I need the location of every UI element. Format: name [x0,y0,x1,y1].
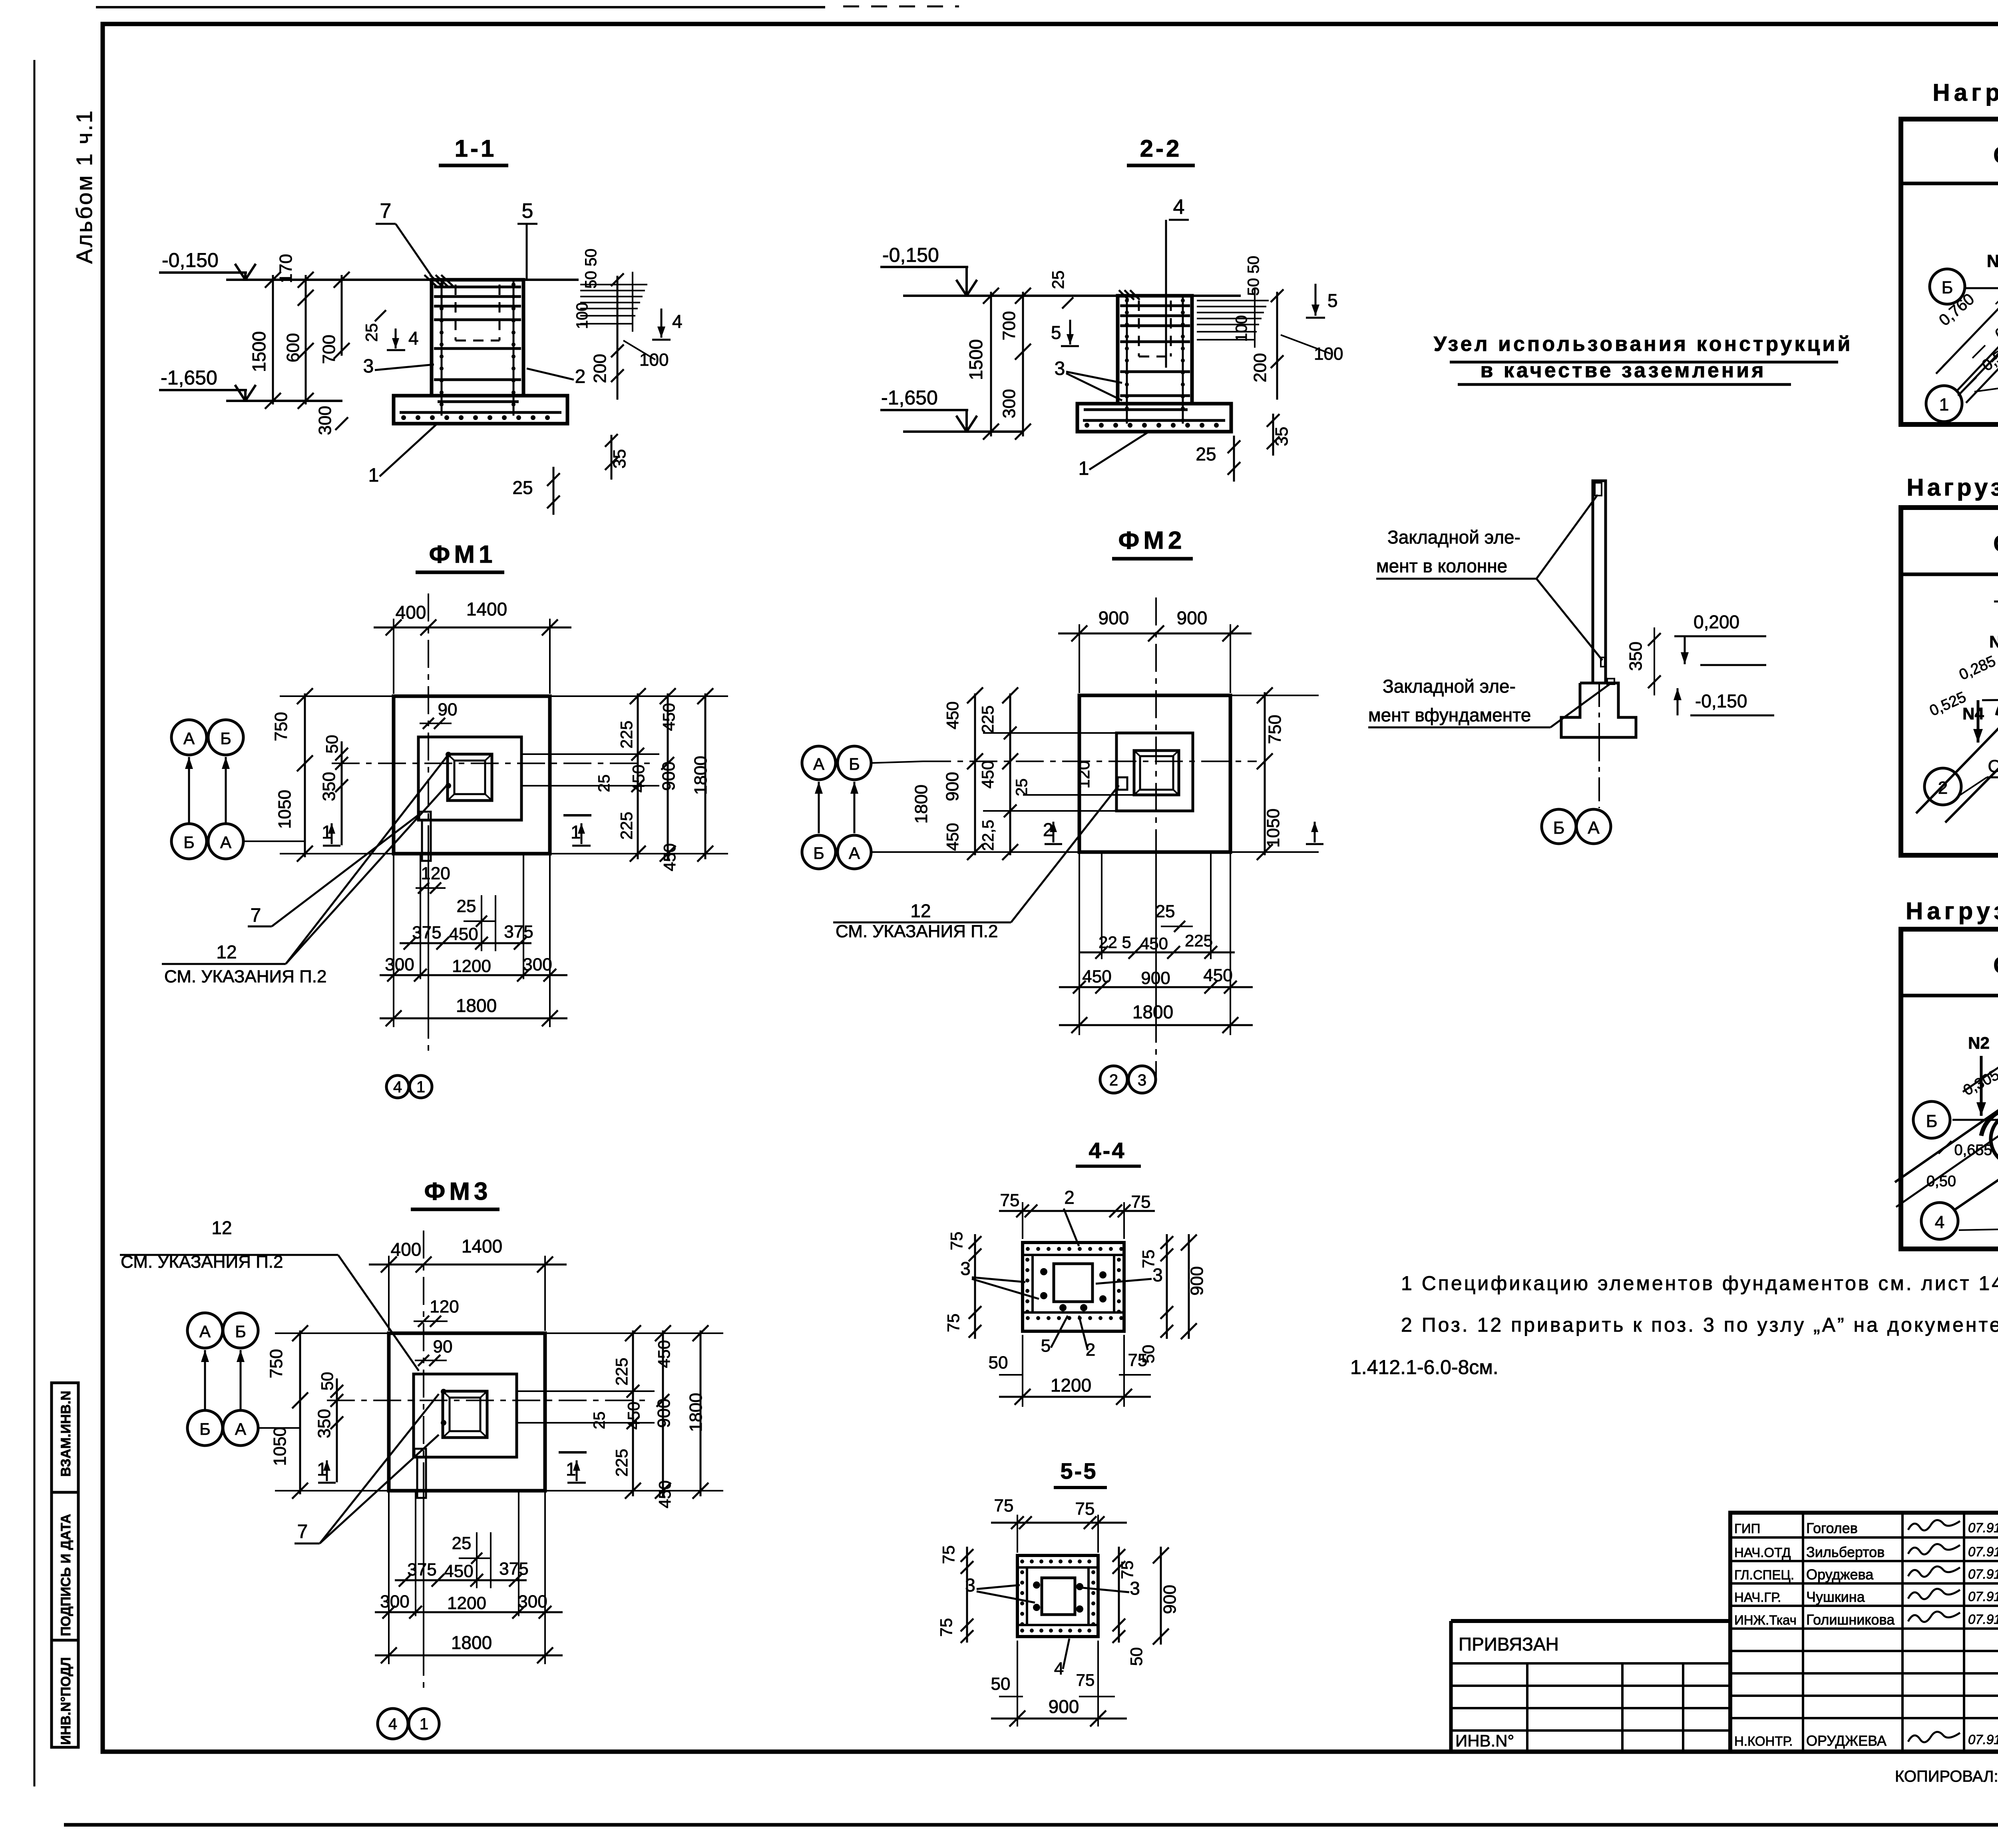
svg-text:25: 25 [457,896,476,916]
svg-text:1200: 1200 [452,956,491,976]
svg-text:Б: Б [183,833,195,852]
svg-text:900: 900 [943,772,962,801]
svg-text:50: 50 [989,1353,1008,1372]
svg-text:90: 90 [438,700,458,719]
svg-text:750: 750 [267,1349,286,1378]
svg-text:1: 1 [420,1715,428,1733]
svg-text:50 50: 50 50 [582,249,600,289]
svg-text:450: 450 [444,1561,473,1581]
svg-text:А: А [235,1420,246,1438]
svg-text:25: 25 [362,323,381,342]
svg-text:ПРИВЯЗАН: ПРИВЯЗАН [1459,1634,1559,1655]
svg-text:700: 700 [319,335,339,364]
svg-text:450: 450 [978,761,997,789]
svg-text:450: 450 [943,701,962,729]
svg-text:3: 3 [363,356,374,377]
svg-text:12: 12 [211,1217,232,1238]
svg-text:22 5: 22 5 [1099,933,1131,952]
svg-text:450: 450 [624,1402,643,1430]
svg-text:1050: 1050 [270,1427,290,1466]
svg-text:1: 1 [416,1078,425,1096]
svg-text:0,50: 0,50 [1926,1173,1956,1190]
svg-text:Нагрузки на фундамент ФМ1: Нагрузки на фундамент ФМ1 [1932,79,1998,106]
svg-text:Альбом 1 ч.1: Альбом 1 ч.1 [72,109,97,264]
svg-text:7: 7 [297,1521,308,1542]
svg-text:375: 375 [412,923,441,942]
svg-text:07.91: 07.91 [1968,1589,1998,1604]
svg-text:N4: N4 [1962,704,1984,723]
svg-text:3: 3 [1130,1578,1140,1599]
svg-text:3: 3 [965,1575,975,1595]
svg-text:Нагрузки на фундамент ФМ2: Нагрузки на фундамент ФМ2 [1906,474,1998,501]
svg-text:300: 300 [999,389,1019,418]
svg-text:25: 25 [1013,779,1031,797]
svg-text:225: 225 [612,1358,631,1386]
svg-text:НАЧ.ГР.: НАЧ.ГР. [1734,1590,1781,1605]
svg-text:4: 4 [388,1715,397,1733]
svg-text:25: 25 [512,477,533,498]
svg-text:2 Поз. 12 приварить к поз. 3: 2 Поз. 12 приварить к поз. 3 по узлу „А”… [1401,1314,1998,1336]
svg-text:12: 12 [216,942,237,962]
svg-text:7: 7 [380,199,392,223]
svg-text:ИНВ.N°ПОДЛ: ИНВ.N°ПОДЛ [58,1657,74,1745]
svg-text:-0,150: -0,150 [162,249,219,271]
svg-text:25: 25 [452,1533,472,1553]
svg-text:75: 75 [994,1496,1014,1515]
svg-text:ФМ3: ФМ3 [424,1178,492,1205]
svg-text:Чушкина: Чушкина [1806,1589,1865,1605]
svg-text:35: 35 [610,449,629,469]
svg-text:25: 25 [595,775,613,793]
svg-text:-1,650: -1,650 [881,386,938,409]
svg-text:Б: Б [1926,1111,1938,1131]
svg-text:225: 225 [978,705,997,733]
svg-text:450: 450 [449,924,478,944]
svg-text:5: 5 [1327,290,1338,311]
svg-text:07.91: 07.91 [1968,1544,1998,1559]
svg-text:900: 900 [659,761,679,791]
svg-text:07.91: 07.91 [1968,1520,1998,1535]
svg-text:1400: 1400 [462,1236,502,1257]
svg-text:-1,650: -1,650 [161,366,217,389]
svg-text:75: 75 [1128,1350,1148,1370]
svg-text:ВЗАМ.ИНВ.N: ВЗАМ.ИНВ.N [58,1391,74,1477]
svg-text:50 50: 50 50 [1245,256,1262,296]
svg-text:120: 120 [421,864,450,883]
svg-text:3: 3 [1138,1071,1146,1089]
svg-text:375: 375 [499,1559,528,1579]
svg-text:450: 450 [629,765,648,793]
svg-text:225: 225 [617,721,636,749]
svg-text:Закладной эле-: Закладной эле- [1387,527,1520,548]
svg-text:300: 300 [315,406,335,435]
svg-text:ИНЖ.Ткач: ИНЖ.Ткач [1734,1613,1797,1627]
svg-text:700: 700 [999,311,1019,340]
svg-text:450: 450 [1082,967,1111,986]
svg-text:5: 5 [1051,322,1061,343]
svg-text:2: 2 [575,366,586,387]
svg-text:200: 200 [1250,353,1270,382]
svg-text:КОПИРОВАЛ: НЕСМЕЯНОВА,: КОПИРОВАЛ: НЕСМЕЯНОВА, [1895,1768,1998,1785]
svg-text:1500: 1500 [965,339,986,380]
svg-text:ГИП: ГИП [1734,1521,1760,1536]
svg-text:Схема: Схема [1993,531,1998,557]
svg-text:900: 900 [1049,1696,1079,1717]
svg-text:07.91: 07.91 [1968,1612,1998,1627]
svg-text:225: 225 [617,812,636,840]
svg-text:1800: 1800 [451,1632,492,1653]
svg-text:900: 900 [1177,607,1208,628]
svg-text:1200: 1200 [447,1593,486,1613]
svg-text:450: 450 [660,843,679,871]
svg-text:450: 450 [943,823,962,851]
svg-text:-0,150: -0,150 [1695,691,1747,711]
svg-text:ПОДПИСЬ И ДАТА: ПОДПИСЬ И ДАТА [58,1514,74,1636]
svg-text:200: 200 [590,354,610,383]
svg-text:1.412.1-6.0-8см.: 1.412.1-6.0-8см. [1350,1356,1498,1378]
svg-text:750: 750 [271,712,291,741]
svg-text:Голишникова: Голишникова [1806,1611,1895,1628]
svg-text:375: 375 [504,922,533,942]
svg-text:А: А [813,755,824,773]
svg-text:СМ. УКАЗАНИЯ П.2: СМ. УКАЗАНИЯ П.2 [836,922,998,941]
svg-text:4-4: 4-4 [1089,1138,1126,1163]
svg-text:300: 300 [380,1592,409,1611]
svg-text:мент в колонне: мент в колонне [1376,556,1507,576]
svg-text:75: 75 [947,1232,966,1251]
svg-text:07.91: 07.91 [1968,1732,1998,1747]
svg-text:400: 400 [391,1239,422,1260]
svg-text:Зильбертов: Зильбертов [1806,1544,1885,1560]
svg-text:400: 400 [396,602,426,623]
svg-text:0,200: 0,200 [1694,611,1739,632]
svg-text:300: 300 [518,1592,547,1611]
svg-text:Узел использования констру: Узел использования конструкций [1434,333,1853,356]
svg-text:450: 450 [655,1340,673,1368]
svg-text:225: 225 [1185,931,1213,950]
svg-text:900: 900 [1187,1266,1207,1295]
svg-text:25: 25 [591,1412,608,1430]
svg-text:120: 120 [1074,761,1093,789]
svg-text:ГЛ.СПЕЦ.: ГЛ.СПЕЦ. [1734,1567,1794,1582]
svg-text:450: 450 [1140,934,1168,953]
svg-text:450: 450 [1203,966,1232,985]
svg-text:50: 50 [318,1372,336,1391]
svg-text:900: 900 [1099,607,1129,628]
svg-text:Б: Б [813,844,824,862]
svg-text:90: 90 [433,1337,453,1356]
svg-text:1800: 1800 [691,756,710,795]
svg-text:Б: Б [1553,818,1565,838]
svg-text:75: 75 [937,1618,955,1637]
svg-text:350: 350 [1626,641,1646,671]
svg-text:300: 300 [523,955,552,974]
svg-text:Ось фундамента: Ось фундамента [1988,757,1998,776]
svg-text:50: 50 [322,735,341,754]
svg-text:750: 750 [1265,715,1285,744]
svg-text:1050: 1050 [275,790,295,829]
svg-text:А: А [1588,818,1600,838]
svg-text:900: 900 [1160,1585,1180,1614]
svg-text:1800: 1800 [911,785,931,824]
svg-text:Б: Б [199,1420,211,1438]
svg-text:25: 25 [1156,902,1175,921]
svg-text:4: 4 [393,1078,402,1096]
svg-text:1800: 1800 [456,995,497,1016]
svg-text:50: 50 [1127,1647,1146,1666]
svg-text:450: 450 [655,1480,674,1508]
svg-text:2-2: 2-2 [1140,135,1182,162]
svg-text:1800: 1800 [686,1393,706,1432]
svg-text:1-1: 1-1 [455,135,497,162]
svg-text:4: 4 [672,311,683,332]
svg-text:375: 375 [407,1560,436,1579]
svg-text:100: 100 [1314,344,1343,364]
svg-text:450: 450 [659,703,678,731]
svg-text:N2: N2 [1968,1034,1990,1052]
svg-text:1050: 1050 [1264,808,1283,848]
svg-text:ИНВ.N°: ИНВ.N° [1455,1731,1514,1750]
svg-text:Б: Б [849,755,860,773]
svg-text:А: А [220,833,231,852]
svg-text:НАЧ.ОТД: НАЧ.ОТД [1734,1545,1791,1560]
svg-text:3: 3 [1055,358,1065,379]
svg-text:100: 100 [573,303,591,329]
svg-text:350: 350 [314,1409,334,1438]
svg-text:12: 12 [910,900,931,921]
svg-text:75: 75 [1131,1192,1151,1212]
svg-text:0,655: 0,655 [1954,1142,1992,1159]
svg-text:2: 2 [1064,1187,1075,1208]
svg-text:ОРУДЖЕВА: ОРУДЖЕВА [1806,1732,1887,1749]
svg-text:225: 225 [612,1449,631,1477]
svg-text:3: 3 [960,1258,971,1279]
svg-text:Гоголев: Гоголев [1806,1520,1858,1536]
svg-text:А: А [849,844,860,862]
svg-text:Нагрузки на фундамент фм3: Нагрузки на фундамент фм3 [1906,898,1998,924]
svg-text:900: 900 [654,1398,674,1428]
svg-text:25: 25 [1196,444,1216,464]
svg-text:5-5: 5-5 [1061,1458,1098,1484]
svg-text:07.91: 07.91 [1968,1567,1998,1581]
svg-text:А: А [199,1322,211,1341]
svg-text:1: 1 [368,465,379,486]
svg-text:Закладной эле-: Закладной эле- [1383,676,1516,697]
svg-text:Б: Б [1942,278,1953,297]
svg-text:120: 120 [430,1297,459,1316]
svg-text:900: 900 [1141,968,1170,988]
svg-text:-0,150: -0,150 [882,244,939,266]
svg-text:7: 7 [251,905,261,926]
svg-text:1200: 1200 [1051,1375,1091,1396]
svg-text:1: 1 [1079,458,1089,479]
svg-text:СМ. УКАЗАНИЯ П.2: СМ. УКАЗАНИЯ П.2 [164,967,326,986]
svg-text:25: 25 [1049,271,1067,289]
svg-text:4: 4 [408,328,419,348]
svg-text:Б: Б [220,729,231,748]
svg-text:50: 50 [991,1674,1011,1694]
svg-text:Б: Б [235,1322,246,1341]
svg-text:4: 4 [1173,195,1185,219]
svg-text:5: 5 [522,199,533,223]
svg-text:2: 2 [1109,1071,1118,1089]
svg-text:75: 75 [1075,1499,1095,1519]
svg-text:мент вфундаменте: мент вфундаменте [1368,705,1531,725]
svg-text:4: 4 [1935,1213,1944,1232]
svg-text:100: 100 [1233,315,1250,342]
svg-text:5: 5 [1041,1336,1051,1356]
svg-text:75: 75 [944,1314,963,1332]
svg-text:А: А [183,729,195,748]
svg-text:N2: N2 [1989,632,1998,651]
svg-text:600: 600 [283,333,303,362]
svg-text:75: 75 [1000,1191,1020,1210]
svg-text:75: 75 [1076,1671,1095,1689]
svg-text:Схема: Схема [1993,952,1998,978]
svg-text:1 Спецификацию элементов фу: 1 Спецификацию элементов фундаментов см.… [1401,1272,1998,1294]
svg-text:1800: 1800 [1132,1002,1173,1022]
svg-text:ФМ2: ФМ2 [1118,527,1186,554]
svg-text:1: 1 [1939,395,1949,414]
svg-text:ФМ1: ФМ1 [429,541,496,568]
svg-text:350: 350 [319,772,339,801]
svg-text:170: 170 [276,254,296,283]
svg-text:Н.КОНТР.: Н.КОНТР. [1734,1734,1793,1748]
svg-text:300: 300 [385,955,414,974]
svg-text:Схема: Схема [1993,142,1998,168]
svg-text:35: 35 [1272,427,1292,446]
svg-text:75: 75 [1139,1250,1158,1269]
svg-text:N3: N3 [1987,251,1998,271]
svg-text:75: 75 [939,1545,958,1564]
svg-text:1400: 1400 [466,599,507,619]
svg-text:1500: 1500 [249,331,269,372]
svg-text:в качестве заземления: в качестве заземления [1480,359,1766,382]
svg-text:22,5: 22,5 [979,820,997,851]
svg-text:75: 75 [1118,1561,1136,1579]
svg-text:Оруджева: Оруджева [1806,1566,1874,1583]
